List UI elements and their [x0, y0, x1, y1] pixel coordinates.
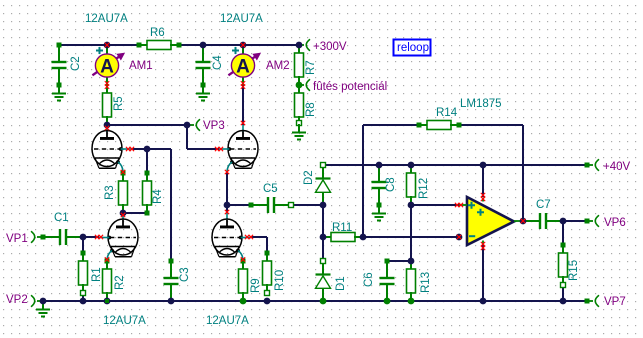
- resistor R1: [82, 253, 84, 262]
- svg-text:R12: R12: [418, 178, 430, 199]
- pin mark op-amp plus input: [455, 203, 459, 207]
- triode V1 upper-left 12AU7A: [106, 125, 108, 132]
- reloop annotation box: [394, 40, 431, 56]
- wire R10 corner down: [266, 237, 268, 253]
- junction (83,301): [80, 298, 87, 305]
- pin mark V2 anode: [241, 121, 245, 125]
- resistor R12: [410, 165, 412, 174]
- junction (363,237): [360, 234, 367, 241]
- svg-text:R5: R5: [113, 96, 125, 111]
- svg-text:C5: C5: [263, 183, 278, 195]
- junction (227,205): [224, 202, 231, 209]
- junction (323,301): [320, 298, 327, 305]
- pin mark V2 grid: [215, 147, 219, 151]
- svg-text:fûtés potenciál: fûtés potenciál: [313, 81, 387, 93]
- svg-text:R10: R10: [274, 270, 286, 291]
- wire V1 grid to node: [131, 148, 147, 150]
- junction (563,301): [560, 298, 567, 305]
- svg-text:12AU7A: 12AU7A: [220, 13, 263, 25]
- port futes potencial: [296, 82, 303, 89]
- pin mark AM2 bottom: [241, 81, 245, 85]
- resistor R5: [106, 85, 108, 94]
- svg-text:R2: R2: [114, 275, 126, 290]
- ammeter AM1: [106, 45, 108, 54]
- junction (387,301): [384, 298, 391, 305]
- ground at VP2: [42, 301, 44, 310]
- svg-text:R9: R9: [250, 278, 262, 293]
- wire V1b grid from C1 node: [83, 236, 99, 238]
- diode D1: [322, 261, 324, 275]
- port VP6: [585, 219, 590, 224]
- port VP3: [187, 124, 194, 126]
- wire to op-amp inverting input: [363, 236, 459, 238]
- wire top +300V rail: [59, 44, 299, 46]
- junction (523,221): [520, 218, 527, 225]
- svg-text:VP1: VP1: [6, 233, 28, 245]
- svg-text:+40V: +40V: [603, 161, 631, 173]
- junction (107,45): [104, 42, 111, 49]
- pin square R2 bottom: [105, 299, 109, 303]
- svg-text:C7: C7: [536, 199, 551, 211]
- wire C3 column down: [170, 149, 172, 261]
- wire R1 bottom to rail: [82, 293, 84, 301]
- svg-text:R4: R4: [152, 189, 164, 204]
- port VP7: [585, 299, 590, 304]
- capacitor C8: [378, 165, 380, 182]
- resistor R7: [298, 45, 300, 54]
- svg-text:D2: D2: [303, 170, 315, 185]
- svg-text:12AU7A: 12AU7A: [85, 13, 128, 25]
- svg-text:R13: R13: [420, 272, 432, 293]
- diode D2: [322, 165, 324, 179]
- pin mark V4 anode: [225, 210, 229, 214]
- svg-text:A: A: [100, 56, 114, 77]
- wire cathode node to C5: [227, 204, 251, 206]
- wire R14 to right corner: [459, 124, 523, 126]
- capacitor C6: [386, 261, 388, 278]
- svg-text:LM1875: LM1875: [460, 98, 502, 110]
- wire R12 node down: [410, 205, 412, 261]
- svg-text:C2: C2: [70, 56, 82, 71]
- capacitor C7: [523, 220, 540, 222]
- junction (411,205): [408, 202, 415, 209]
- resistor R11: [323, 236, 332, 238]
- resistor R10: [266, 253, 268, 262]
- pin mark op-amp V-: [481, 242, 485, 246]
- svg-text:C6: C6: [363, 272, 375, 287]
- wire feedback right vertical: [522, 125, 524, 221]
- capacitor C3: [170, 261, 172, 278]
- junction (323,237): [320, 234, 327, 241]
- wire C6 to R13 node: [387, 260, 411, 262]
- capacitor C5: [251, 204, 268, 206]
- resistor R8: [298, 85, 300, 94]
- pin mark op-amp minus input: [457, 235, 461, 239]
- wire output node to VP6: [563, 220, 587, 222]
- svg-text:VP7: VP7: [604, 296, 626, 308]
- wire feedback top left: [363, 124, 419, 126]
- resistor R13: [410, 261, 412, 270]
- svg-text:R3: R3: [104, 185, 116, 200]
- junction (243,301): [240, 298, 247, 305]
- svg-text:VP3: VP3: [203, 120, 225, 132]
- junction (459,237): [456, 234, 463, 241]
- capacitor C4: [202, 45, 204, 62]
- wire +40V rail: [323, 164, 587, 166]
- port +40V: [585, 163, 590, 168]
- wire R3 bottom to R4 bottom: [123, 212, 147, 214]
- wire C1 node down to R1: [82, 237, 84, 253]
- svg-text:VP6: VP6: [604, 217, 626, 229]
- pin mark V4 cathode: [241, 257, 245, 261]
- junction (83,237): [80, 234, 87, 241]
- svg-text:D1: D1: [335, 276, 347, 291]
- wire feedback left vertical: [362, 125, 364, 237]
- junction (107,125): [104, 122, 111, 129]
- junction (411,301): [408, 298, 415, 305]
- pin mark AM1 top: [105, 43, 109, 47]
- ground under R8: [298, 124, 300, 133]
- pin mark V1 grid: [126, 147, 130, 151]
- junction (483,301): [480, 298, 487, 305]
- capacitor C2: [58, 45, 60, 62]
- triode V2 upper-right 12AU7A: [242, 125, 244, 132]
- resistor R3: [122, 173, 124, 182]
- svg-text:AM1: AM1: [129, 60, 153, 72]
- junction (243,45): [240, 42, 247, 49]
- resistor R15: [562, 245, 564, 254]
- pin mark V3 grid: [95, 235, 99, 239]
- wire VP3 to V2 grid: [187, 148, 219, 150]
- svg-text:R1: R1: [91, 267, 103, 282]
- svg-text:12AU7A: 12AU7A: [206, 315, 249, 327]
- svg-text:R6: R6: [150, 27, 165, 39]
- svg-text:C3: C3: [179, 267, 191, 282]
- pin mark AM2 top: [241, 43, 245, 47]
- port +300V: [299, 44, 304, 46]
- pin mark V4 grid: [245, 235, 249, 239]
- svg-text:+300V: +300V: [313, 41, 347, 53]
- junction (187,125): [184, 122, 191, 129]
- svg-text:R14: R14: [436, 107, 458, 119]
- wire R11 node down to D1: [322, 237, 324, 261]
- ground under C4: [202, 85, 204, 94]
- wire node down to R4: [146, 149, 148, 173]
- ammeter AM2: [242, 45, 244, 54]
- junction (411,261): [408, 258, 415, 265]
- junction (267,301): [264, 298, 271, 305]
- resistor R14: [419, 124, 428, 126]
- ground under C2: [58, 85, 60, 94]
- svg-text:R7: R7: [305, 60, 317, 75]
- resistor R9: [242, 261, 244, 270]
- pin mark AM1 bottom: [105, 81, 109, 85]
- junction (203,45): [200, 42, 207, 49]
- wire bottom ground rail: [43, 300, 587, 302]
- label AM2 plus: [232, 47, 239, 54]
- junction (411,165): [408, 162, 415, 169]
- resistor R4: [146, 173, 148, 182]
- wire V2b grid to R10 corner: [251, 236, 267, 238]
- label AM1 plus: [96, 47, 103, 54]
- wire VP3 net from R5 to port: [107, 124, 187, 126]
- svg-text:C4: C4: [212, 55, 224, 70]
- wire VP6 node down to R15: [562, 221, 564, 245]
- junction (483,165): [480, 162, 487, 169]
- svg-text:R15: R15: [568, 260, 580, 281]
- pin mark op-amp V+: [481, 193, 485, 197]
- svg-text:AM2: AM2: [266, 60, 290, 72]
- svg-text:reloop: reloop: [397, 42, 429, 54]
- ground under C8: [378, 205, 380, 214]
- resistor R6: [139, 44, 148, 46]
- wire op-amp V- pin: [482, 245, 484, 301]
- svg-text:12AU7A: 12AU7A: [103, 315, 146, 327]
- pin mark V3 anode: [121, 213, 125, 217]
- wire C5 to D2 node: [291, 204, 323, 206]
- pin mark V1 anode: [105, 126, 109, 130]
- wire R15 bottom to rail: [562, 285, 564, 301]
- svg-text:C1: C1: [54, 212, 69, 224]
- pin mark V2 cathode: [225, 170, 229, 174]
- junction (323,205): [320, 202, 327, 209]
- wire V2 cathode to V2b anode: [226, 173, 228, 213]
- svg-text:R8: R8: [305, 102, 317, 117]
- resistor R2: [106, 261, 108, 270]
- junction (171,301): [168, 298, 175, 305]
- wire VP3 down: [186, 125, 188, 149]
- pin mark V1 cathode: [121, 170, 125, 174]
- svg-text:VP2: VP2: [6, 294, 28, 306]
- wire AM2 to V2 anode: [242, 85, 244, 125]
- junction (107,301): [104, 298, 111, 305]
- junction (299,45): [296, 42, 303, 49]
- junction (43,301): [40, 298, 47, 305]
- pin mark V3 cathode: [105, 257, 109, 261]
- svg-text:C8: C8: [385, 177, 397, 192]
- wire to op-amp non-inverting input: [411, 204, 459, 206]
- triode V3 lower-left 12AU7A: [122, 213, 124, 220]
- wire op-amp V+ pin: [482, 165, 484, 197]
- triode V4 lower-right 12AU7A: [226, 213, 228, 220]
- wire D2 node down to R11: [322, 205, 324, 237]
- junction (147,149): [144, 146, 151, 153]
- junction (563,221): [560, 218, 567, 225]
- wire node to C3 column: [147, 148, 171, 150]
- svg-text:R11: R11: [332, 222, 352, 234]
- capacitor C1: [43, 236, 60, 238]
- junction (379,165): [376, 162, 383, 169]
- op-amp U1 LM1875: [467, 197, 514, 245]
- junction (123,213): [120, 210, 127, 217]
- svg-text:A: A: [236, 56, 250, 77]
- pin mark op-amp output: [521, 219, 525, 223]
